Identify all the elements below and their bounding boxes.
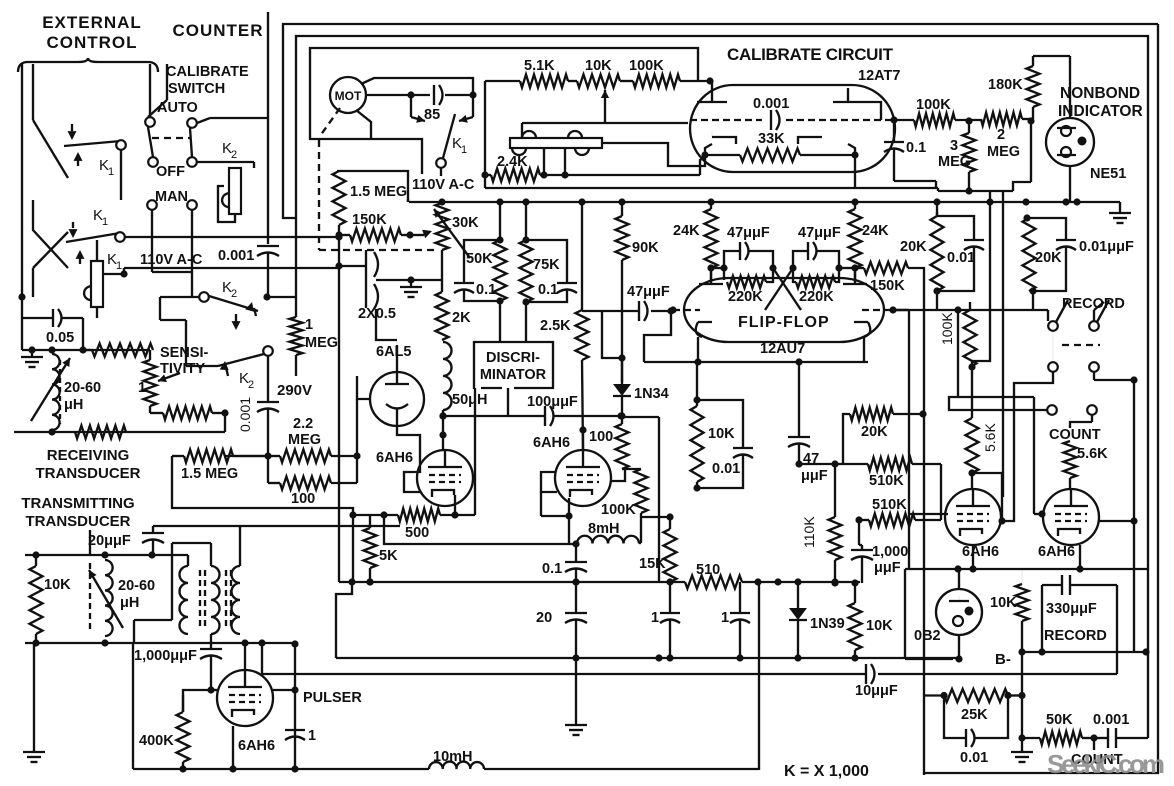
- svg-text:RECORD: RECORD: [1062, 296, 1125, 312]
- svg-text:0.1: 0.1: [476, 282, 496, 298]
- junction: [774, 578, 781, 585]
- potentiometer 30K: [434, 203, 479, 280]
- svg-text:INDICATOR: INDICATOR: [1058, 103, 1143, 120]
- svg-text:20-60: 20-60: [64, 380, 101, 396]
- resistor 10K 1N39: [849, 579, 894, 661]
- counter lead: [267, 12, 269, 244]
- wire bus y456: [225, 452, 272, 459]
- svg-text:150K: 150K: [870, 278, 905, 294]
- wire 1.5meg left drop: [172, 456, 353, 515]
- wire 6AL5: [357, 376, 420, 483]
- 12AT7 right triode: [786, 88, 893, 144]
- label 6AH6 pulser: [238, 738, 275, 754]
- svg-text:μH: μH: [64, 397, 83, 413]
- resistor 180K: [988, 56, 1070, 119]
- label CALIBRATE CIRCUIT: [727, 45, 894, 64]
- wire 12AT7 out: [890, 116, 914, 123]
- resistor 5.6K left: [966, 367, 999, 489]
- resistor 20K right: [900, 202, 944, 295]
- frame inner: [296, 36, 1148, 652]
- junction: [1062, 198, 1069, 205]
- junction: [572, 578, 579, 585]
- wire third line: [310, 48, 698, 174]
- svg-text:μμF: μμF: [874, 560, 901, 576]
- svg-text:1.5 MEG: 1.5 MEG: [350, 184, 407, 200]
- wire K2 junction: [263, 293, 296, 300]
- svg-text:RECORD: RECORD: [1044, 628, 1107, 644]
- wire cross grids: [711, 268, 855, 310]
- label COUNT bottom: [1071, 738, 1123, 768]
- label AUTO: [157, 100, 198, 116]
- svg-text:6AH6: 6AH6: [962, 544, 999, 560]
- delay line: [510, 131, 705, 175]
- svg-text:25K: 25K: [961, 707, 988, 723]
- wire ff right out: [893, 310, 909, 569]
- tube 12AT7: [690, 68, 900, 172]
- svg-text:6AL5: 6AL5: [376, 344, 411, 360]
- wire MOT top: [361, 78, 473, 95]
- svg-text:1N39: 1N39: [810, 616, 845, 632]
- svg-text:10K: 10K: [708, 426, 735, 442]
- ground xmit: [23, 643, 45, 762]
- svg-text:CALIBRATE: CALIBRATE: [166, 64, 249, 80]
- label COUNT: [1049, 427, 1101, 443]
- svg-text:50K: 50K: [466, 251, 493, 267]
- svg-text:μH: μH: [120, 595, 139, 611]
- wire x924: [923, 414, 925, 775]
- capacitor 85: [411, 85, 473, 123]
- svg-text:8mH: 8mH: [588, 521, 619, 537]
- resistor 50K: [466, 202, 507, 305]
- junction: [438, 198, 445, 205]
- capacitor 0.1 cal: [884, 120, 936, 188]
- wire box down: [475, 388, 508, 481]
- switch K2 lower: [186, 314, 273, 391]
- junction: [1022, 198, 1029, 205]
- dashed MOT linkage: [319, 108, 340, 250]
- capacitor 47uuF right: [789, 225, 842, 272]
- svg-text:SENSI-: SENSI-: [160, 345, 209, 361]
- resistor 90K: [616, 202, 660, 382]
- junction: [986, 198, 993, 205]
- resistor 500: [349, 509, 475, 542]
- svg-text:B-: B-: [995, 651, 1011, 668]
- capacitor 1000uuF: [851, 544, 908, 583]
- wire relay K1 out: [103, 268, 339, 278]
- svg-text:0B2: 0B2: [914, 628, 941, 644]
- 12AU7 plates: [699, 268, 867, 284]
- resistor 33K: [701, 131, 858, 162]
- svg-text:6AH6: 6AH6: [376, 450, 413, 466]
- capacitor 0.001 count: [1093, 652, 1148, 748]
- svg-text:MAN: MAN: [155, 189, 188, 205]
- wire MOT right: [366, 91, 477, 98]
- watermark: [1047, 749, 1165, 779]
- svg-text:2.5K: 2.5K: [540, 318, 571, 334]
- svg-text:110K: 110K: [801, 516, 817, 548]
- capacitor 2X0.5: [339, 250, 396, 322]
- capacitor 100uuF: [527, 394, 625, 426]
- junction: [707, 198, 714, 205]
- svg-text:100K: 100K: [916, 97, 951, 113]
- lamp NE51: [1046, 56, 1126, 203]
- svg-text:510K: 510K: [869, 473, 904, 489]
- resistor 25K: [924, 689, 1022, 723]
- capacitor 47uuF left: [720, 225, 776, 272]
- diode 1N39: [789, 582, 845, 662]
- tube 6AH6 first: [376, 412, 473, 506]
- inductor 20-60uH receiving: [31, 354, 101, 430]
- svg-text:50K: 50K: [1046, 712, 1073, 728]
- junction: [366, 578, 373, 585]
- svg-text:10K: 10K: [585, 58, 612, 74]
- svg-text:15K: 15K: [639, 556, 666, 572]
- tube 0B2: [914, 569, 982, 663]
- svg-text:5.6K: 5.6K: [1077, 446, 1108, 462]
- capacitor 0.1 50K: [454, 240, 500, 301]
- wire 3meg bottom: [938, 121, 1031, 191]
- resistor 10K ff: [691, 362, 736, 492]
- svg-text:100K: 100K: [601, 502, 636, 518]
- resistor 510K lower: [855, 497, 941, 545]
- svg-text:5.1K: 5.1K: [524, 58, 555, 74]
- capacitor 1 a: [651, 582, 680, 662]
- svg-text:SWITCH: SWITCH: [168, 81, 225, 97]
- switch gang dashed: [152, 137, 190, 139]
- capacitor 47uuF coupling: [582, 284, 675, 362]
- svg-text:10mH: 10mH: [433, 749, 473, 765]
- wire left vertical: [18, 64, 25, 350]
- svg-text:1: 1: [116, 260, 122, 272]
- svg-text:2: 2: [231, 288, 237, 300]
- wire B- bus: [1022, 648, 1150, 655]
- wire 290V rail: [295, 218, 298, 297]
- wire count feed: [949, 306, 1047, 410]
- wire bus y583: [339, 581, 860, 583]
- svg-text:0.1: 0.1: [538, 282, 558, 298]
- 12AT7 left triode: [690, 88, 762, 144]
- label 110V A-C left: [140, 252, 203, 268]
- ground right: [1011, 734, 1033, 762]
- junction: [578, 198, 585, 205]
- tube 6AH6 second: [533, 426, 611, 506]
- wire left bus x339: [335, 225, 342, 582]
- wire out2 plate: [1099, 517, 1138, 524]
- capacitor 0.001 K2: [237, 356, 279, 456]
- resistor 2K: [436, 280, 472, 340]
- ground 2x0.5: [376, 276, 442, 297]
- wire out1 cathode: [969, 545, 976, 573]
- junction: [496, 198, 503, 205]
- svg-text:NONBOND: NONBOND: [1060, 85, 1140, 102]
- resistor 24K left: [673, 202, 718, 282]
- svg-text:1: 1: [102, 216, 108, 228]
- wire bus y555: [25, 551, 188, 558]
- potentiometer sensitivity: [138, 350, 180, 406]
- wire main bus: [408, 199, 1077, 202]
- capacitor 10uuF: [855, 664, 898, 699]
- svg-text:MEG: MEG: [938, 154, 971, 170]
- diode 1N34: [613, 357, 669, 416]
- svg-text:85: 85: [424, 107, 440, 123]
- resistor 2.4K: [481, 154, 700, 182]
- junction: [666, 578, 673, 585]
- calibrate switch pole2: [187, 118, 267, 167]
- svg-text:510: 510: [696, 562, 720, 578]
- resistor 20K far right: [1023, 202, 1063, 295]
- wire pulser plate right: [273, 640, 299, 772]
- wire bus y350: [22, 346, 150, 353]
- svg-text:DISCRI-: DISCRI-: [486, 350, 540, 366]
- svg-text:TRANSMITTING: TRANSMITTING: [21, 495, 134, 512]
- svg-text:MEG: MEG: [305, 335, 338, 351]
- capacitor 0.001 cal: [753, 96, 789, 130]
- MAN contacts: [147, 200, 197, 272]
- svg-text:COUNT: COUNT: [1049, 427, 1101, 443]
- label 290V: [277, 382, 312, 399]
- wire y416: [439, 412, 545, 419]
- capacitor 47uuF vert: [788, 358, 828, 484]
- resistor 2.2 MEG: [268, 416, 361, 463]
- ground left: [21, 350, 43, 367]
- label K = X 1000: [784, 763, 869, 780]
- svg-text:90K: 90K: [632, 240, 659, 256]
- svg-text:400K: 400K: [139, 733, 174, 749]
- svg-text:1: 1: [305, 317, 313, 333]
- inductor 50uH: [443, 342, 487, 416]
- resistor 75K: [520, 202, 561, 306]
- resistor 1 MEG: [290, 297, 339, 376]
- svg-text:100K: 100K: [939, 312, 955, 345]
- svg-text:2: 2: [231, 149, 237, 161]
- label RECORD: [1062, 296, 1125, 312]
- svg-text:1,000μμF: 1,000μμF: [134, 648, 197, 664]
- capacitor 0.01 right: [937, 212, 1033, 310]
- resistor 5.6K count: [1064, 415, 1109, 489]
- resistor 110K: [801, 460, 842, 586]
- svg-text:0.01μμF: 0.01μμF: [1079, 239, 1134, 255]
- svg-text:TIVITY: TIVITY: [160, 361, 205, 377]
- resistor 5.1K: [485, 58, 568, 88]
- resistor 3 MEG: [938, 121, 976, 195]
- resistor sens lower: [150, 406, 229, 420]
- svg-text:12AT7: 12AT7: [858, 68, 900, 84]
- capacitor 0.01uuF right: [1027, 218, 1134, 291]
- label EXTERNAL CONTROL: [42, 13, 142, 52]
- svg-text:330μμF: 330μμF: [1046, 601, 1097, 617]
- switch K2 upper: [160, 279, 258, 340]
- svg-text:0.01: 0.01: [947, 250, 975, 266]
- resistor 510K upper: [835, 434, 941, 489]
- svg-text:TRANSDUCER: TRANSDUCER: [26, 513, 131, 530]
- svg-text:FLIP-FLOP: FLIP-FLOP: [738, 314, 830, 331]
- svg-text:1: 1: [721, 610, 729, 626]
- svg-text:1: 1: [651, 610, 659, 626]
- svg-text:3: 3: [950, 138, 958, 154]
- svg-text:47μμF: 47μμF: [798, 225, 841, 241]
- svg-text:CALIBRATE CIRCUIT: CALIBRATE CIRCUIT: [727, 45, 894, 64]
- resistor 1.5 MEG vert: [333, 171, 409, 225]
- svg-text:2.2: 2.2: [293, 416, 313, 432]
- capacitor 20uuF: [88, 526, 400, 555]
- svg-text:6AH6: 6AH6: [238, 738, 275, 754]
- tube 6AH6 out1: [945, 489, 1001, 560]
- wire K1 arm out: [125, 233, 343, 240]
- svg-text:0.01: 0.01: [960, 750, 988, 766]
- label K2 relay: [222, 140, 237, 161]
- label CALIBRATE SWITCH: [166, 64, 249, 97]
- svg-text:100μμF: 100μμF: [527, 394, 578, 410]
- svg-text:510K: 510K: [872, 497, 907, 513]
- switch RECORD: [893, 300, 1109, 372]
- wire out2 cathode: [1076, 545, 1083, 573]
- svg-text:2.4K: 2.4K: [497, 154, 528, 170]
- svg-text:K = X 1,000: K = X 1,000: [784, 763, 869, 780]
- dashed linkage to 30K: [319, 249, 437, 251]
- resistor 24K right: [849, 202, 890, 282]
- resistor 100K right: [924, 302, 977, 414]
- svg-text:2: 2: [997, 127, 1005, 143]
- motor MOT: [330, 77, 366, 113]
- svg-text:150K: 150K: [352, 212, 387, 228]
- junction: [522, 198, 529, 205]
- resistor 400K: [139, 695, 190, 773]
- wire xducer stem: [89, 530, 91, 555]
- label MAN: [155, 189, 188, 205]
- capacitor 0.01 25K: [944, 696, 1008, 767]
- svg-text:MEG: MEG: [987, 144, 1020, 160]
- svg-text:20K: 20K: [1035, 250, 1062, 266]
- wire pulser grid: [183, 686, 237, 772]
- capacitor 1 b: [721, 582, 750, 662]
- resistor 220K right: [793, 268, 839, 305]
- svg-text:0.1: 0.1: [906, 140, 926, 156]
- svg-text:1.5 MEG: 1.5 MEG: [181, 466, 238, 482]
- svg-text:24K: 24K: [862, 223, 889, 239]
- svg-text:1: 1: [461, 144, 467, 156]
- svg-text:0.1: 0.1: [542, 561, 562, 577]
- svg-text:1: 1: [308, 728, 316, 744]
- label K1 lower: [107, 251, 122, 272]
- tube 12AU7 flip-flop: [684, 278, 884, 357]
- wire right drop: [758, 583, 760, 770]
- svg-text:1: 1: [108, 166, 114, 178]
- resistor 50K: [1022, 712, 1098, 745]
- svg-text:33K: 33K: [758, 131, 785, 147]
- svg-text:0.001: 0.001: [218, 248, 254, 264]
- wire cathode1: [455, 481, 475, 515]
- calibrate box: [485, 81, 938, 188]
- svg-text:NE51: NE51: [1090, 166, 1126, 182]
- label 110V A-C: [412, 177, 475, 193]
- svg-text:30K: 30K: [452, 215, 479, 231]
- svg-text:47μμF: 47μμF: [727, 225, 770, 241]
- svg-text:20μμF: 20μμF: [88, 533, 131, 549]
- resistor sens input: [83, 344, 153, 357]
- label TRANSMITTING TRANSDUCER: [21, 495, 134, 530]
- junction: [618, 198, 625, 205]
- svg-text:SeekIC.com: SeekIC.com: [1047, 749, 1165, 779]
- wire out2 grid: [1034, 397, 1046, 518]
- svg-text:500: 500: [405, 525, 429, 541]
- calibrate switch pole1: [145, 64, 185, 180]
- svg-text:2: 2: [248, 379, 254, 391]
- resistor 100K cal: [620, 58, 714, 88]
- wire NE51 bottom junction: [1065, 203, 1067, 205]
- resistor 2.5K: [540, 202, 589, 450]
- bottom bus: [133, 644, 759, 769]
- wire x1021 down: [1018, 652, 1025, 738]
- wire cal bottom: [700, 155, 855, 188]
- resistor 100K out: [914, 97, 981, 127]
- svg-text:10μμF: 10μμF: [855, 683, 898, 699]
- junction: [831, 578, 838, 585]
- svg-text:10K: 10K: [866, 618, 893, 634]
- svg-text:10K: 10K: [44, 577, 71, 593]
- switch COUNT contacts: [1047, 405, 1097, 415]
- wire bus y643: [25, 639, 134, 646]
- svg-text:0.05: 0.05: [46, 330, 74, 346]
- capacitor 0.05: [22, 309, 83, 350]
- switch K1 upper: [33, 120, 126, 178]
- wire 6AH6-2 plate: [611, 469, 625, 481]
- svg-text:RECEIVING: RECEIVING: [47, 447, 130, 464]
- svg-text:5K: 5K: [379, 548, 398, 564]
- capacitor 0.1 75K: [526, 240, 577, 302]
- svg-text:24K: 24K: [673, 223, 700, 239]
- resistor 1.5 MEG horiz: [172, 450, 268, 483]
- svg-text:0.001: 0.001: [1093, 712, 1129, 728]
- svg-text:110V A-C: 110V A-C: [140, 252, 203, 268]
- wire verticals right: [972, 191, 1003, 497]
- resistor 10K xmit: [30, 555, 72, 643]
- resistor 100K disc: [601, 469, 674, 521]
- label NONBOND INDICATOR: [1058, 85, 1143, 120]
- label PULSER: [303, 690, 362, 706]
- wire 6AH6-1 grid: [404, 472, 421, 492]
- svg-text:100: 100: [589, 429, 613, 445]
- svg-text:CONTROL: CONTROL: [46, 33, 137, 52]
- svg-text:1,000: 1,000: [872, 544, 908, 560]
- resistor 150K ff out: [855, 262, 924, 414]
- wire: [32, 64, 34, 120]
- wire 50K to box: [500, 301, 526, 342]
- wire: [120, 150, 122, 200]
- svg-text:1: 1: [138, 380, 146, 396]
- junction: [754, 578, 761, 585]
- svg-text:1N34: 1N34: [634, 386, 669, 402]
- svg-text:MINATOR: MINATOR: [480, 367, 547, 383]
- svg-text:110V A-C: 110V A-C: [412, 177, 475, 193]
- wire 6AH6-1 plate right: [473, 480, 475, 482]
- svg-text:20: 20: [536, 610, 552, 626]
- svg-text:μμF: μμF: [801, 468, 828, 484]
- capacitor 1 pulser: [285, 728, 316, 744]
- wire out1 plate: [972, 473, 1006, 525]
- svg-text:TRANSDUCER: TRANSDUCER: [36, 465, 141, 482]
- wire diode out right: [622, 417, 659, 582]
- wire wiper to grid: [522, 123, 688, 138]
- junction: [851, 198, 858, 205]
- label B-: [995, 651, 1011, 668]
- svg-text:0.01: 0.01: [712, 461, 740, 477]
- svg-text:50μH: 50μH: [452, 392, 487, 408]
- wire y677: [1116, 585, 1118, 674]
- svg-text:20-60: 20-60: [118, 578, 155, 594]
- label RECEIVING TRANSDUCER: [36, 447, 141, 482]
- svg-text:220K: 220K: [799, 289, 834, 305]
- resistor 150K: [339, 212, 432, 242]
